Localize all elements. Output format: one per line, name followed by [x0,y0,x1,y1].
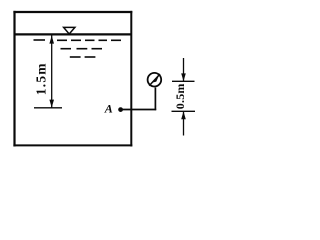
svg-text:A: A [104,102,113,116]
svg-text:0.5m: 0.5m [173,83,187,109]
svg-text:1.5m: 1.5m [34,62,49,95]
